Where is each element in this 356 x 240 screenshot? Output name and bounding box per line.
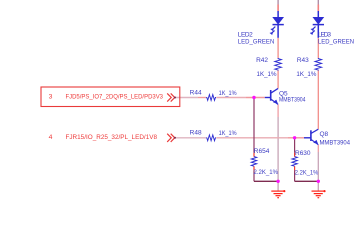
svg-text:LED_GREEN: LED_GREEN <box>238 38 275 45</box>
svg-text:R48: R48 <box>190 130 202 137</box>
svg-text:R44: R44 <box>190 90 202 97</box>
svg-text:1K_1%: 1K_1% <box>219 130 237 137</box>
svg-text:FJR15/IO_R25_32/PL_LED/1V8: FJR15/IO_R25_32/PL_LED/1V8 <box>66 134 158 141</box>
svg-text:3: 3 <box>49 94 53 101</box>
svg-text:Q8: Q8 <box>320 131 329 138</box>
svg-text:1K_1%: 1K_1% <box>296 71 316 78</box>
svg-text:1K_1%: 1K_1% <box>219 90 237 97</box>
svg-text:2.2K_1%: 2.2K_1% <box>295 170 319 177</box>
svg-text:FJD5/PS_IO7_2DQ/PS_LED/PD3V3: FJD5/PS_IO7_2DQ/PS_LED/PD3V3 <box>66 94 164 101</box>
svg-text:R42: R42 <box>256 57 268 64</box>
svg-text:4: 4 <box>49 134 53 141</box>
svg-text:MMBT3904: MMBT3904 <box>279 96 306 103</box>
svg-text:1K_1%: 1K_1% <box>257 71 277 78</box>
svg-text:R43: R43 <box>297 57 309 64</box>
svg-text:2.2K_1%: 2.2K_1% <box>254 169 279 176</box>
svg-text:R630: R630 <box>295 150 311 157</box>
svg-text:LED_GREEN: LED_GREEN <box>318 38 354 45</box>
svg-text:MMBT3904: MMBT3904 <box>320 139 351 146</box>
svg-text:R654: R654 <box>254 148 270 155</box>
